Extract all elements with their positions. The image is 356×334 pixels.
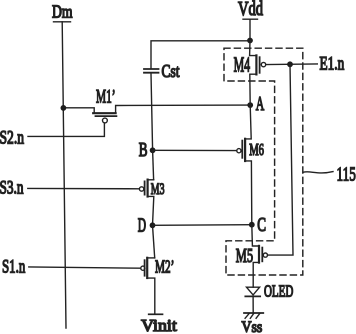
- transistor M1': [63, 87, 250, 123]
- wire M4 gate to E1.n: [266, 63, 318, 66]
- transistor M5: [236, 246, 268, 287]
- svg-text:M4: M4: [234, 53, 251, 77]
- svg-text:Vdd: Vdd: [238, 0, 263, 20]
- svg-text:M3: M3: [151, 181, 165, 198]
- svg-text:C: C: [257, 215, 266, 236]
- svg-text:S1.n: S1.n: [2, 257, 26, 278]
- terminal Vinit: [141, 314, 177, 334]
- transistor M6: [237, 139, 264, 225]
- svg-text:Vinit: Vinit: [141, 316, 177, 334]
- svg-text:M5: M5: [236, 246, 253, 267]
- wire S2.n to M1' gate: [28, 123, 104, 136]
- svg-text:S2.n: S2.n: [0, 127, 24, 148]
- ground Vss: [242, 313, 264, 334]
- wire M5 gate to E1 node: [268, 64, 294, 255]
- svg-text:E1.n: E1.n: [320, 55, 345, 75]
- wire node B to M6 gate: [153, 149, 237, 151]
- svg-text:S3.n: S3.n: [0, 178, 24, 199]
- transistor M4: [234, 53, 266, 106]
- svg-text:D: D: [138, 216, 146, 237]
- diode OLED: [245, 281, 293, 313]
- svg-text:B: B: [139, 139, 148, 161]
- power terminal Vdd: [238, 0, 263, 41]
- wire Cst top to Vdd: [151, 41, 250, 68]
- svg-text:Dm: Dm: [52, 2, 73, 22]
- node Vdd junction: [247, 38, 253, 44]
- wire node D to node C: [153, 224, 252, 227]
- wire S3.n to M3 gate: [28, 187, 139, 189]
- node D: [138, 216, 156, 237]
- node Dm junction: [61, 105, 67, 111]
- node C: [249, 215, 266, 236]
- wire node C to M5: [252, 225, 259, 246]
- capacitor Cst: [144, 61, 180, 151]
- svg-text:115: 115: [337, 163, 356, 185]
- node A: [247, 94, 264, 115]
- node B: [139, 139, 156, 161]
- node E1 junction: [287, 61, 293, 67]
- svg-text:M2’: M2’: [155, 256, 174, 276]
- wire node A to M6: [245, 105, 251, 139]
- svg-text:M1’: M1’: [96, 87, 116, 108]
- svg-text:Vss: Vss: [242, 319, 263, 334]
- wire node B to M3: [153, 150, 154, 179]
- svg-text:Cst: Cst: [162, 61, 180, 81]
- label 115 leader: [303, 163, 356, 185]
- transistor M2': [141, 256, 175, 314]
- wire node D to M2': [153, 225, 155, 258]
- wire S1.n to M2' gate: [29, 267, 141, 268]
- transistor M3: [139, 180, 164, 226]
- svg-text:M6: M6: [249, 140, 264, 159]
- svg-text:A: A: [256, 94, 264, 115]
- wire Vdd to M4: [250, 41, 257, 56]
- terminal Dm: [52, 2, 73, 329]
- dashed block 115 outline: [224, 48, 303, 275]
- svg-text:OLED: OLED: [264, 281, 293, 300]
